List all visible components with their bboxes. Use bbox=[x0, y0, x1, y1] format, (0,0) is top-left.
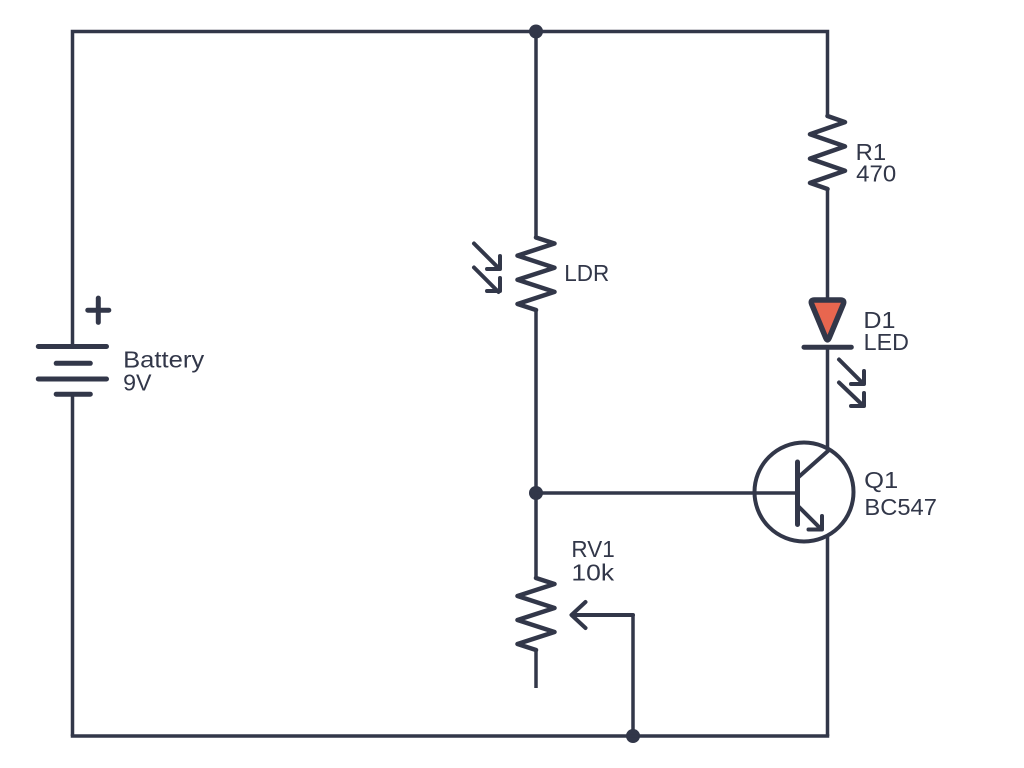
svg-text:LED: LED bbox=[864, 329, 909, 355]
wire wiper down to bottom junction bbox=[631, 615, 635, 736]
battery Battery 9V plates bbox=[38, 347, 106, 395]
node bottom junction bbox=[626, 729, 640, 743]
LDR photoresistor zigzag bbox=[518, 238, 555, 311]
wire R1 to LED anode bbox=[826, 189, 830, 300]
LED D1 triangle bbox=[811, 300, 844, 340]
transistor Q1 emitter diagonal with arrow bbox=[798, 506, 823, 530]
LED light arrow 2 (lower) bbox=[839, 383, 864, 407]
battery plus sign bbox=[88, 298, 109, 322]
RV1 wiper arrow bbox=[572, 602, 634, 628]
svg-text:BC547: BC547 bbox=[864, 494, 937, 520]
wire base junction to Q1 base bbox=[536, 491, 798, 495]
resistor R1 zigzag bbox=[810, 116, 845, 189]
LDR light arrow 1 (upper) bbox=[474, 244, 500, 270]
potentiometer RV1 zigzag bbox=[518, 578, 555, 650]
transistor Q1 base bar bbox=[795, 462, 800, 525]
wire bottom rail bbox=[71, 734, 830, 738]
svg-text:9V: 9V bbox=[123, 370, 152, 396]
RV1 open stub below bbox=[534, 650, 538, 688]
svg-text:Battery: Battery bbox=[123, 347, 205, 373]
wire battery negative down to bottom rail bbox=[71, 394, 75, 736]
svg-text:RV1: RV1 bbox=[571, 536, 614, 562]
node top junction bbox=[529, 25, 543, 39]
transistor Q1 collector diagonal bbox=[798, 451, 829, 479]
svg-text:10k: 10k bbox=[571, 560, 614, 586]
wire Q1 emitter down to bottom rail bbox=[826, 536, 830, 736]
node base junction bbox=[529, 486, 543, 500]
wire top junction down to LDR bbox=[534, 32, 538, 238]
svg-text:Q1: Q1 bbox=[864, 467, 898, 493]
wire top rail: junction to top-right corner down to R1 bbox=[536, 32, 828, 117]
wire left rail: battery positive up to top-left corner and top rail to junction bbox=[73, 32, 537, 347]
transistor Q1 circle bbox=[755, 443, 854, 542]
LED light arrow 1 (upper) bbox=[839, 360, 864, 385]
LDR light arrow 2 (lower) bbox=[474, 268, 500, 293]
wire LED cathode to Q1 collector bbox=[826, 347, 830, 450]
wire LDR to base junction bbox=[534, 310, 538, 493]
svg-text:LDR: LDR bbox=[564, 260, 609, 286]
wire base junction to RV1 bbox=[534, 493, 538, 578]
svg-text:470: 470 bbox=[856, 161, 896, 187]
LED cathode bar bbox=[804, 345, 851, 350]
